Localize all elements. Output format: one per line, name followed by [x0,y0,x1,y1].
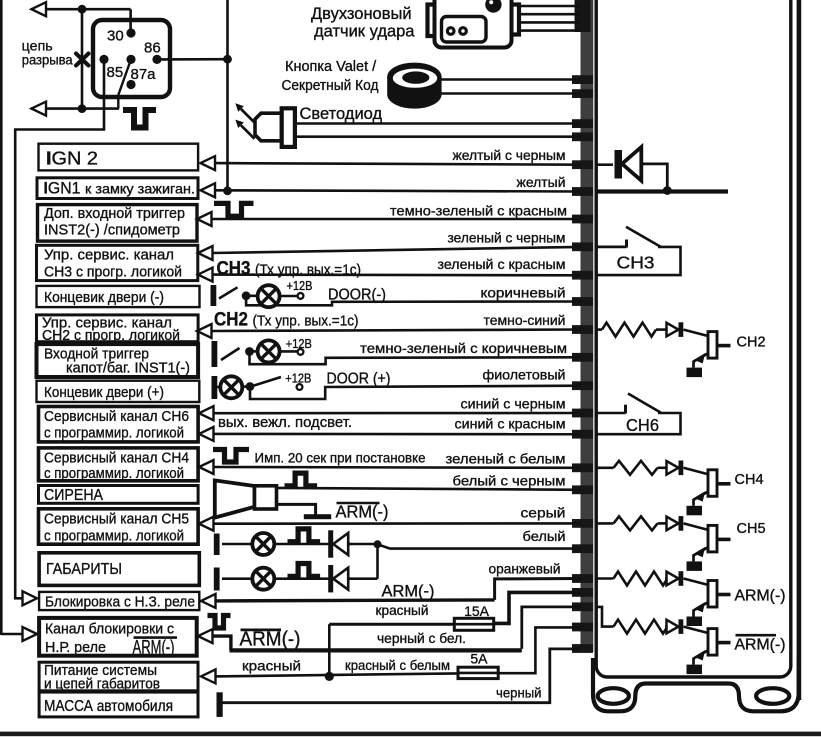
svg-text:(Тх упр. вых.=1с): (Тх упр. вых.=1с) [255,261,361,278]
svg-text:DOOR(-): DOOR(-) [328,286,386,303]
svg-text:фиолетовый: фиолетовый [483,366,566,382]
svg-text:Секретный Код: Секретный Код [282,78,379,94]
svg-text:Сервисный канал СН6: Сервисный канал СН6 [44,408,189,425]
svg-text:синий с красным: синий с красным [455,415,566,431]
svg-text:Имп. 20 сек при постановке: Имп. 20 сек при постановке [255,450,426,466]
svg-text:Концевик двери (+): Концевик двери (+) [44,384,164,401]
svg-text:Доп. входной триггер: Доп. входной триггер [44,205,185,222]
svg-text:с программир. логикой: с программир. логикой [44,425,184,442]
svg-text:темно-зеленый с красным: темно-зеленый с красным [390,202,567,218]
svg-text:Упр. сервис. канал: Упр. сервис. канал [44,246,174,263]
svg-text:оранжевый: оранжевый [489,561,561,577]
svg-text:разрыва: разрыва [22,51,73,67]
svg-text:INST2(-) /спидометр: INST2(-) /спидометр [44,221,180,238]
svg-text:серый: серый [521,504,566,520]
svg-text:ARM(-): ARM(-) [735,588,786,605]
svg-text:темно-синий: темно-синий [484,312,566,328]
svg-text:ARM(-): ARM(-) [133,637,175,659]
svg-text:зеленый с красным: зеленый с красным [438,256,566,272]
svg-text:СН2: СН2 [214,308,248,330]
svg-text:ARM(-): ARM(-) [735,637,786,654]
svg-text:синий с черным: синий с черным [461,395,566,411]
svg-text:к замку зажиган.: к замку зажиган. [85,180,195,196]
svg-text:СН4: СН4 [735,472,764,488]
svg-text:ГАБАРИТЫ: ГАБАРИТЫ [46,561,122,578]
svg-text:Сервисный канал СН5: Сервисный канал СН5 [44,511,189,528]
svg-text:ARM(-): ARM(-) [382,583,435,601]
svg-text:датчик удара: датчик удара [314,22,415,40]
svg-text:желтый: желтый [517,174,566,190]
svg-text:15А: 15А [464,603,490,619]
svg-text:IGN1: IGN1 [44,178,81,197]
svg-text:+12В: +12В [287,279,313,293]
svg-text:Двухзоновый: Двухзоновый [311,5,412,23]
svg-text:СН3: СН3 [217,257,251,279]
svg-text:зеленый с белым: зеленый с белым [446,450,566,466]
svg-text:белый с черным: белый с черным [453,472,566,488]
svg-text:белый: белый [523,528,566,544]
svg-text:красный: красный [376,602,429,618]
svg-text:коричневый: коричневый [481,284,566,300]
svg-text:IGN 2: IGN 2 [46,149,98,169]
svg-text:ARM(-): ARM(-) [240,628,301,650]
svg-text:+12В: +12В [286,337,312,351]
svg-text:DOOR (+): DOOR (+) [327,370,391,387]
svg-text:капот/баг. INST1(-): капот/баг. INST1(-) [66,360,190,377]
svg-text:Блокировка с Н.З. реле: Блокировка с Н.З. реле [45,593,195,610]
svg-text:СИРЕНА: СИРЕНА [44,487,103,504]
svg-text:черный с бел.: черный с бел. [377,630,466,646]
svg-text:красный с белым: красный с белым [345,657,450,673]
svg-text:и цепей габаритов: и цепей габаритов [44,676,160,693]
svg-text:красный: красный [242,658,301,674]
svg-text:86: 86 [144,40,161,57]
svg-text:черный: черный [496,685,542,701]
svg-text:зеленый с черным: зеленый с черным [448,230,566,246]
svg-text:вых. вежл. подсвет.: вых. вежл. подсвет. [218,414,352,431]
svg-text:87а: 87а [131,66,157,83]
svg-text:с программир. логикой: с программир. логикой [44,465,184,482]
svg-text:85: 85 [107,64,124,81]
svg-text:МАССА автомобиля: МАССА автомобиля [44,698,173,715]
svg-text:Светодиод: Светодиод [300,105,383,123]
svg-text:Канал блокировки с: Канал блокировки с [45,621,174,638]
svg-text:Кнопка Valet /: Кнопка Valet / [285,59,377,75]
svg-text:СН3: СН3 [617,253,655,273]
svg-text:Н.Р. реле: Н.Р. реле [45,639,106,656]
svg-text:5А: 5А [470,651,488,667]
svg-text:30: 30 [107,28,124,45]
svg-text:СН6: СН6 [626,415,659,435]
svg-text:СН3 с прогр. логикой: СН3 с прогр. логикой [44,263,182,280]
svg-text:СН2 с прогр. логикой: СН2 с прогр. логикой [42,327,180,344]
svg-text:+12В: +12В [285,371,311,385]
svg-text:(Тх упр. вых.=1с): (Тх упр. вых.=1с) [253,312,359,329]
svg-text:Сервисный канал СН4: Сервисный канал СН4 [44,449,189,466]
svg-text:темно-зеленый с коричневым: темно-зеленый с коричневым [360,340,567,356]
svg-text:СН2: СН2 [737,334,766,350]
svg-text:с программир. логикой: с программир. логикой [44,527,184,544]
svg-text:Концевик двери (-): Концевик двери (-) [44,289,164,306]
svg-text:СН5: СН5 [737,521,766,537]
svg-text:желтый с черным: желтый с черным [453,147,566,163]
